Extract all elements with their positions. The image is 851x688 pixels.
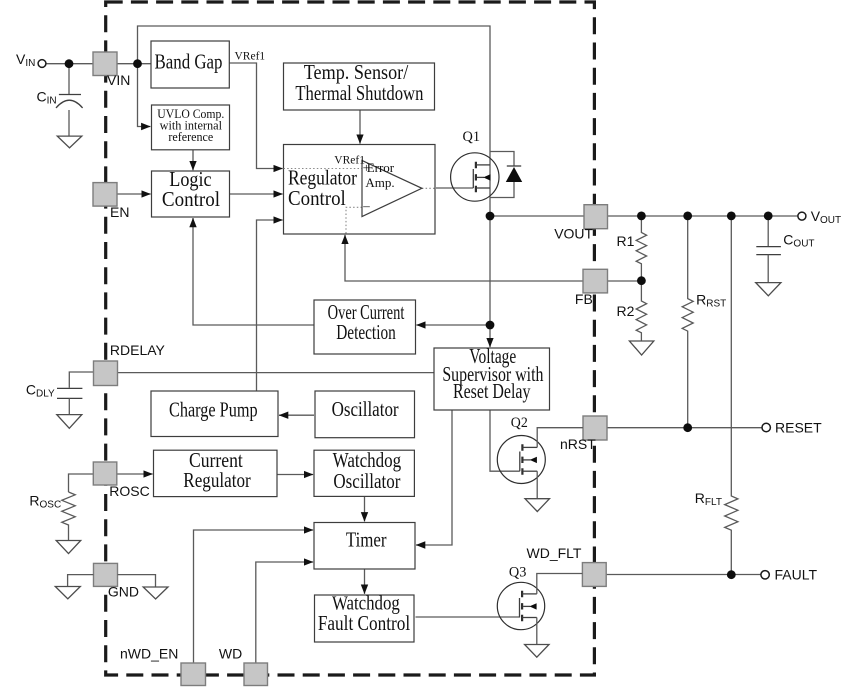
svg-text:Control: Control xyxy=(288,186,346,210)
svg-text:WD: WD xyxy=(219,646,242,662)
svg-text:Band Gap: Band Gap xyxy=(155,50,223,74)
svg-text:VIN: VIN xyxy=(107,72,130,88)
block Regulator Control xyxy=(284,145,436,235)
wire Logic Control to Regulator Control xyxy=(230,193,283,195)
wire Q1 source node to Over Current Detection xyxy=(416,324,490,326)
svg-text:WD_FLT: WD_FLT xyxy=(527,545,582,561)
svg-text:ROSC: ROSC xyxy=(109,483,149,499)
svg-text:–: – xyxy=(362,198,370,213)
svg-text:Timer: Timer xyxy=(346,528,387,552)
op-amp error amplifier xyxy=(284,154,474,233)
svg-text:Regulator: Regulator xyxy=(183,468,250,492)
svg-text:nRST: nRST xyxy=(560,436,596,452)
pad WD xyxy=(244,663,268,686)
svg-text:Detection: Detection xyxy=(336,320,396,344)
resistor R2 xyxy=(636,281,646,341)
wire Charge Pump to Regulator Control xyxy=(257,220,283,391)
transistor Q3 xyxy=(497,565,544,630)
svg-text:Fault Control: Fault Control xyxy=(318,611,410,635)
terminal VOUT xyxy=(798,212,806,220)
ground (CIN) xyxy=(57,136,82,148)
wire RDELAY to Voltage Supervisor xyxy=(118,372,435,374)
node VIN-CIN junction xyxy=(65,59,74,68)
svg-text:Oscillator: Oscillator xyxy=(332,397,399,421)
IC boundary dashed outline xyxy=(106,2,595,675)
transistor Q1 xyxy=(451,129,499,201)
wire RESET rail xyxy=(608,427,763,429)
wire GND left ground xyxy=(68,575,94,587)
svg-text:VOUT: VOUT xyxy=(554,226,593,242)
resistor RFLT with pull-up wire xyxy=(725,216,738,575)
block Watchdog Oscillator xyxy=(314,448,414,496)
node RESET-RRST xyxy=(683,423,692,432)
svg-text:Oscillator: Oscillator xyxy=(333,469,400,493)
svg-text:FB: FB xyxy=(575,291,593,307)
svg-text:Error: Error xyxy=(367,160,395,175)
block Watchdog Fault Control xyxy=(315,592,415,642)
svg-text:Q3: Q3 xyxy=(509,565,527,581)
wire FB feedback to Regulator Control xyxy=(345,235,583,281)
wire EN to Logic Control xyxy=(117,193,151,195)
wire Q1 source down to Voltage Supervisor xyxy=(489,216,491,347)
svg-text:CDLY: CDLY xyxy=(26,382,55,400)
svg-text:ROSC: ROSC xyxy=(29,493,61,511)
wire Q3 drain to WD_FLT xyxy=(537,574,583,594)
terminal VIN xyxy=(38,60,46,68)
svg-text:Q2: Q2 xyxy=(511,415,528,431)
pad EN xyxy=(93,183,117,207)
transistor Q2 xyxy=(497,415,545,484)
block Logic Control xyxy=(152,167,230,217)
wire Voltage Supervisor to Q2 gate xyxy=(490,410,520,471)
block Band Gap xyxy=(151,41,229,88)
node R1 top xyxy=(637,212,646,221)
ground (R2) xyxy=(629,341,653,355)
ground (Rosc) xyxy=(56,541,80,554)
diode Q1 body diode xyxy=(490,152,522,198)
wire Over Current Detection to Logic Control xyxy=(193,218,314,325)
svg-text:RRST: RRST xyxy=(696,292,726,310)
wire Timer to Watchdog Fault Control xyxy=(364,569,366,594)
wire Q3 source to ground xyxy=(536,618,538,645)
wire GND right ground xyxy=(118,575,156,587)
wire Watchdog Oscillator to Timer xyxy=(364,496,366,521)
svg-text:nWD_EN: nWD_EN xyxy=(120,646,178,662)
svg-text:RESET: RESET xyxy=(775,420,822,436)
wire CIN branch xyxy=(68,64,70,95)
wire VIN input rail xyxy=(46,63,151,65)
wire FB to R1/R2 node xyxy=(608,280,642,282)
block Timer xyxy=(314,523,415,570)
wire UVLO to Logic Control xyxy=(192,150,194,170)
ground (COUT) xyxy=(756,283,781,296)
wire FAULT rail xyxy=(606,574,761,576)
pad VIN xyxy=(93,52,117,76)
ground (Q3) xyxy=(525,645,549,658)
svg-text:R2: R2 xyxy=(617,303,635,319)
wire WD to Timer xyxy=(256,562,313,663)
block Charge Pump xyxy=(151,391,278,437)
wire Temp Sensor to Regulator Control xyxy=(359,110,361,144)
wire Q2 drain to nRST xyxy=(537,428,583,448)
capacitor CDLY xyxy=(57,388,82,414)
svg-text:Charge Pump: Charge Pump xyxy=(169,398,258,422)
node VOUT at Q1 source xyxy=(486,212,495,221)
pad WD_FLT xyxy=(582,563,606,587)
node COUT top xyxy=(764,212,773,221)
pad nWD_EN xyxy=(181,663,206,686)
svg-text:VIN: VIN xyxy=(16,51,35,69)
wire RDELAY to CDLY xyxy=(69,372,93,388)
resistor RRST xyxy=(682,216,693,428)
wire Current Regulator to Watchdog Oscillator xyxy=(277,474,313,476)
svg-text:GND: GND xyxy=(108,584,139,600)
block Voltage Supervisor with Reset Delay xyxy=(434,344,550,410)
terminal RESET xyxy=(762,423,770,431)
wire Voltage Supervisor to Timer xyxy=(416,410,452,545)
resistor Rosc xyxy=(62,492,75,541)
svg-text:Amp.: Amp. xyxy=(365,175,394,190)
pad VOUT xyxy=(584,205,608,229)
wire Watchdog Fault Control to Q3 gate xyxy=(416,616,520,618)
svg-text:R1: R1 xyxy=(617,233,635,249)
wire VIN top rail to Q1 drain xyxy=(138,26,491,216)
resistor R1 xyxy=(636,216,646,281)
ground (Q2) xyxy=(525,499,550,512)
node FB divider tap xyxy=(637,276,646,285)
node VIN pad junction xyxy=(133,59,142,68)
svg-text:EN: EN xyxy=(110,204,129,220)
node RFLT top xyxy=(727,212,736,221)
wire Band Gap VRef1 to Regulator Control xyxy=(230,63,283,169)
svg-text:COUT: COUT xyxy=(783,232,814,250)
wire ROSC to Current Regulator xyxy=(117,473,153,475)
terminal FAULT xyxy=(761,571,769,579)
svg-text:Thermal Shutdown: Thermal Shutdown xyxy=(295,81,423,105)
node FAULT-RFLT xyxy=(727,570,736,579)
ground (CDLY) xyxy=(57,415,82,429)
pad FB xyxy=(583,269,608,293)
svg-text:RFLT: RFLT xyxy=(695,490,722,508)
pad GND xyxy=(94,563,118,586)
svg-text:RDELAY: RDELAY xyxy=(110,342,166,358)
svg-text:VRef1: VRef1 xyxy=(334,154,365,166)
wire VIN to UVLO xyxy=(138,64,151,127)
wire Oscillator to Charge Pump xyxy=(279,414,314,416)
pad RDELAY xyxy=(94,361,118,386)
block UVLO comparator xyxy=(152,105,230,150)
block Oscillator xyxy=(315,391,415,438)
svg-text:Control: Control xyxy=(162,187,220,211)
capacitor CIN xyxy=(56,95,83,137)
node RRST top xyxy=(683,212,692,221)
pad nRST xyxy=(583,416,607,440)
svg-text:CIN: CIN xyxy=(37,89,57,107)
node over-current sense xyxy=(486,321,495,330)
svg-text:VRef1: VRef1 xyxy=(235,51,266,63)
block Temp Sensor / Thermal Shutdown xyxy=(284,60,435,110)
svg-text:FAULT: FAULT xyxy=(775,567,818,583)
svg-text:Q1: Q1 xyxy=(463,129,481,145)
ground (GND left) xyxy=(55,587,80,599)
capacitor COUT xyxy=(756,216,781,283)
wire Q2 source to ground xyxy=(536,471,538,499)
wire ROSC to external resistor xyxy=(69,474,94,492)
svg-text:Reset Delay: Reset Delay xyxy=(453,379,531,403)
svg-text:VOUT: VOUT xyxy=(811,208,841,226)
block Current Regulator xyxy=(154,448,278,496)
pad ROSC xyxy=(93,462,117,485)
wire nWD_EN to Timer xyxy=(194,530,314,663)
block Over Current Detection xyxy=(314,300,416,354)
ground (GND right) xyxy=(143,587,168,599)
svg-text:reference: reference xyxy=(168,130,213,144)
wire VOUT rail xyxy=(490,215,798,217)
